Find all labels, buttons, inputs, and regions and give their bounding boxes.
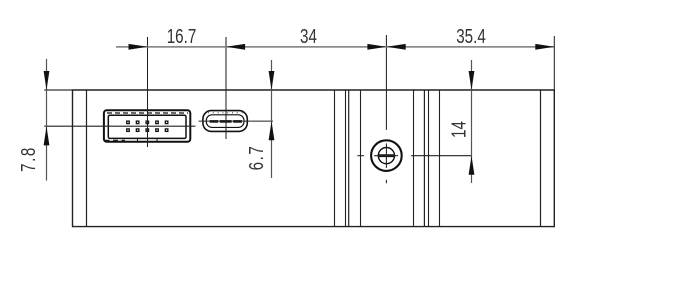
panel right edge: [553, 89, 555, 227]
dimension 7.8 arrow bottom: [44, 126, 50, 145]
svg-text:35.4: 35.4: [456, 25, 486, 48]
panel vertical line b: [334, 90, 336, 227]
panel vertical line i: [439, 90, 441, 227]
panel vertical line g: [423, 90, 425, 227]
svg-text:7.8: 7.8: [17, 148, 40, 172]
panel vertical line e: [360, 90, 362, 227]
dimension 6.7 line: [271, 60, 273, 178]
dimension 6.7 arrow bottom: [269, 121, 275, 140]
svg-text:6.7: 6.7: [245, 146, 268, 170]
panel vertical line a: [86, 90, 88, 227]
extension line right edge: [553, 36, 555, 90]
usb-c tongue slot: [210, 120, 242, 123]
screw crosshair horizontal: [374, 155, 398, 157]
usb-a connector J1: [104, 110, 190, 141]
panel vertical line d: [348, 90, 350, 227]
panel vertical line f: [413, 90, 415, 227]
svg-text:34: 34: [300, 25, 317, 48]
panel vertical line c: [345, 90, 347, 227]
screw drive inner circle: [378, 148, 394, 164]
arrow at usb-a centerline: [129, 44, 148, 50]
panel left edge: [72, 89, 74, 227]
screw horizontal centerline dash left: [357, 155, 364, 157]
usb-c connector J2: [203, 111, 247, 132]
arrow at usb-c centerline: [226, 44, 245, 50]
arrow at screw centerline left: [367, 44, 386, 50]
panel vertical line j: [540, 90, 542, 227]
screw vertical centerline: [385, 35, 387, 130]
usb-c horizontal centerline: [199, 120, 273, 122]
dimension 14 arrow bottom: [469, 156, 475, 175]
usb-a vertical centerline: [147, 37, 149, 147]
top dimension line: [116, 46, 555, 48]
dimension 14 arrow top: [469, 71, 475, 90]
dimension 14 line: [471, 60, 473, 183]
svg-text:14: 14: [447, 121, 470, 138]
panel top edge: [44, 89, 554, 91]
arrow at right edge: [535, 44, 554, 50]
usb-a pins row 1: [127, 121, 168, 124]
screw head outer circle: [371, 140, 402, 171]
screw vertical centerline dash below: [385, 180, 387, 184]
panel vertical line h: [428, 90, 430, 227]
usb-c vertical centerline: [225, 37, 227, 139]
arrow at screw centerline right: [387, 44, 406, 50]
dimension 7.8 arrow top: [44, 71, 50, 90]
screw horizontal centerline right: [411, 155, 471, 157]
screw slot: [379, 154, 395, 157]
dimension 7.8 line: [46, 59, 48, 181]
screw crosshair vertical: [385, 143, 387, 168]
panel bottom edge: [73, 226, 555, 228]
svg-text:16.7: 16.7: [167, 25, 197, 48]
usb-a pins row 2: [127, 129, 168, 132]
dimension 6.7 arrow top: [269, 71, 275, 90]
usb-a horizontal centerline: [44, 125, 195, 127]
